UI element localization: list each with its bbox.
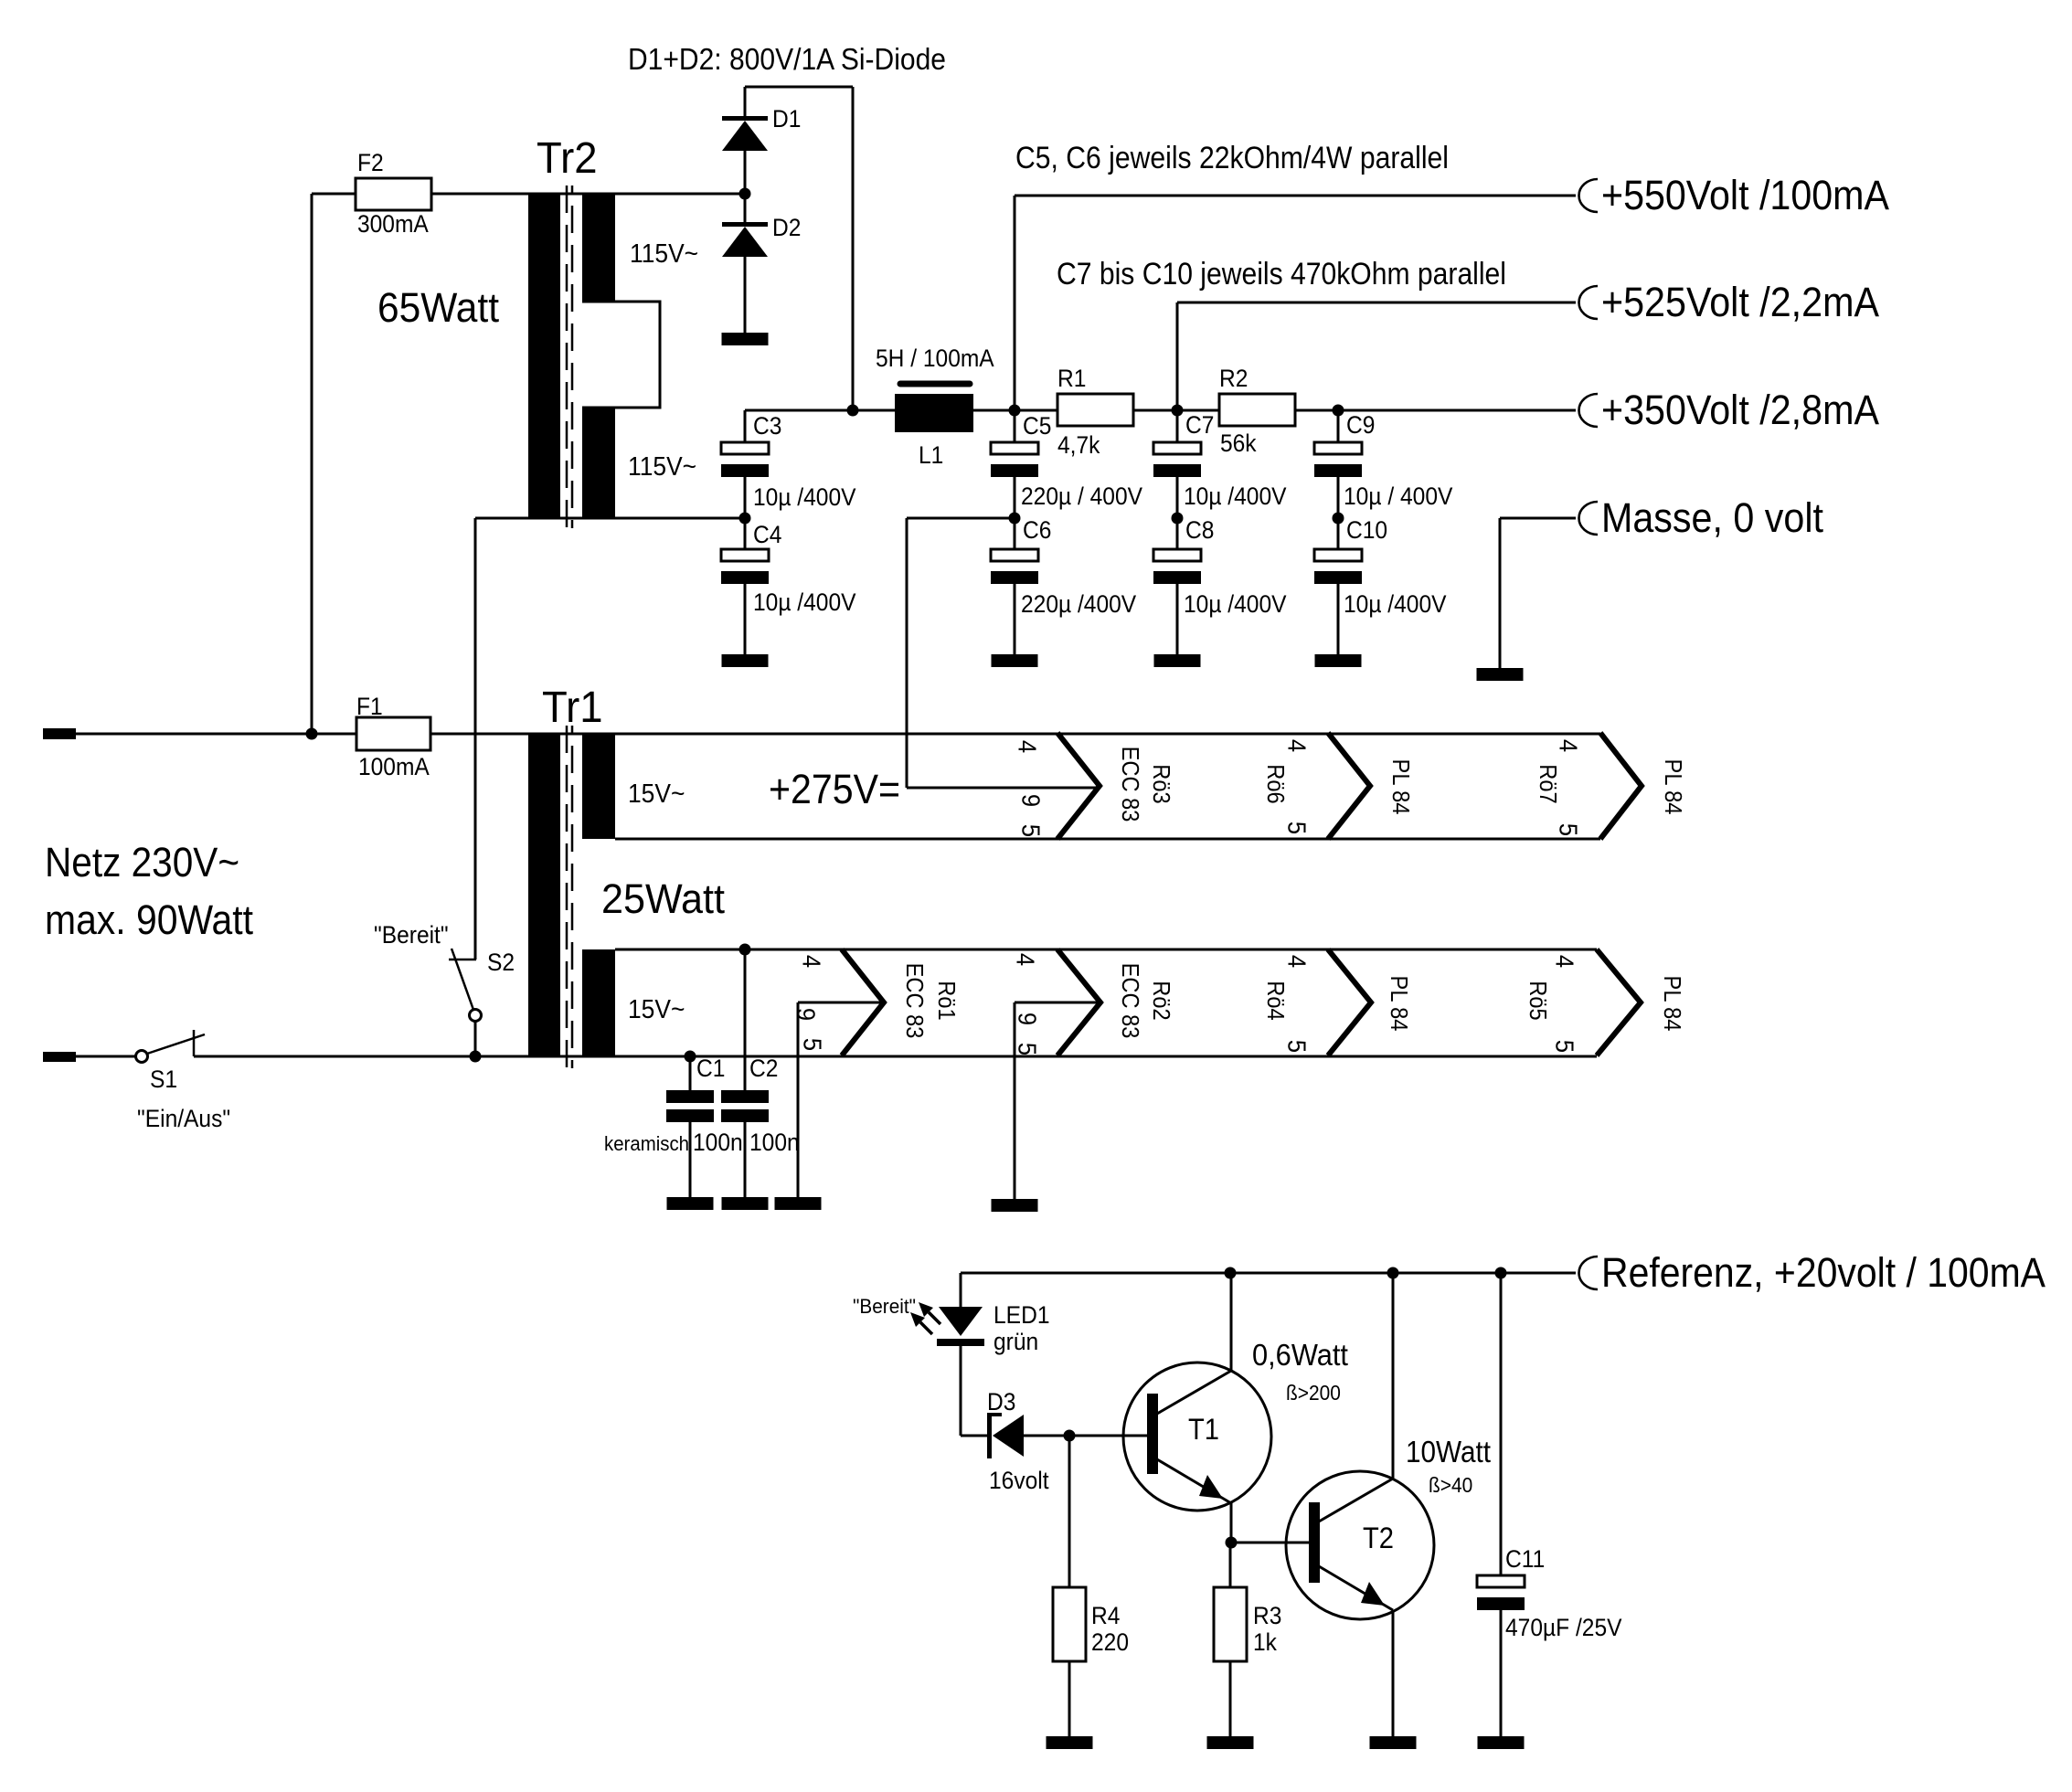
- svg-text:+525Volt /2,2mA: +525Volt /2,2mA: [1601, 279, 1879, 325]
- node: S2 to mains junction: [470, 1051, 482, 1063]
- ground: R3: [1207, 1736, 1254, 1749]
- fuse F2: [356, 178, 431, 210]
- node: T1 emitter / T2 base / R3: [1226, 1537, 1238, 1549]
- svg-text:5: 5: [1014, 1043, 1042, 1055]
- svg-text:C4: C4: [753, 521, 781, 548]
- svg-text:16volt: 16volt: [989, 1467, 1049, 1494]
- resistor R3: [1214, 1587, 1247, 1661]
- svg-text:ECC 83: ECC 83: [901, 963, 929, 1039]
- svg-text:ß>40: ß>40: [1429, 1473, 1472, 1497]
- diode D1: [744, 151, 747, 194]
- wire: heater chain 1 bottom rail: [615, 838, 1600, 841]
- wire: LED branch: [960, 1273, 962, 1307]
- svg-text:C1: C1: [696, 1055, 725, 1082]
- svg-text:4: 4: [1555, 739, 1583, 752]
- wire: top rail to filter: [745, 86, 853, 89]
- ground: C2: [722, 1197, 769, 1210]
- svg-text:220µ / 400V: 220µ / 400V: [1021, 482, 1142, 510]
- svg-text:T2: T2: [1363, 1522, 1394, 1554]
- svg-text:300mA: 300mA: [357, 210, 429, 238]
- node: C11 tap: [1495, 1267, 1507, 1279]
- svg-text:C5: C5: [1023, 412, 1051, 440]
- terminal: +350V: [1578, 394, 1598, 427]
- node: F2 branch junction: [306, 728, 318, 740]
- capacitor C3: [744, 410, 747, 442]
- svg-text:C7 bis C10 jeweils 470kOhm par: C7 bis C10 jeweils 470kOhm parallel: [1057, 257, 1506, 292]
- svg-text:C9: C9: [1346, 411, 1375, 439]
- node: D1/D2 junction: [739, 188, 751, 200]
- svg-text:100n: 100n: [693, 1129, 743, 1156]
- capacitor C8: [1176, 518, 1179, 549]
- svg-text:100mA: 100mA: [358, 753, 430, 780]
- svg-text:9: 9: [1017, 794, 1046, 807]
- wire: LED to D3: [961, 1435, 987, 1437]
- wire: +275V feed: [907, 517, 1015, 520]
- wire: mains top: [76, 733, 356, 736]
- wire: R4 lower lead: [1068, 1661, 1071, 1736]
- svg-text:keramisch: keramisch: [604, 1132, 689, 1155]
- terminal: +550V: [1578, 179, 1598, 212]
- wire: branch up to F2: [311, 194, 313, 734]
- node: D3/R4/base junction: [1064, 1430, 1076, 1442]
- svg-text:115V~: 115V~: [630, 239, 698, 269]
- resistor R1: [1057, 394, 1133, 426]
- svg-text:C8: C8: [1185, 516, 1214, 544]
- svg-text:Rö5: Rö5: [1525, 981, 1552, 1020]
- wire: R1 to R2: [1133, 409, 1219, 412]
- wire: L1 to R1: [973, 409, 1057, 412]
- svg-text:4: 4: [1012, 953, 1040, 966]
- ground: Roe1 pin 9: [775, 1197, 822, 1210]
- ground: D2: [722, 333, 769, 345]
- svg-text:D3: D3: [987, 1388, 1015, 1416]
- svg-text:4: 4: [1283, 739, 1312, 752]
- wire: R2 to +350V terminal: [1295, 409, 1576, 412]
- svg-text:Referenz, +20volt / 100mA: Referenz, +20volt / 100mA: [1601, 1249, 2045, 1296]
- wire: C3 corner to L1: [745, 409, 895, 412]
- node: rectifier output: [847, 405, 859, 417]
- svg-text:+350Volt /2,8mA: +350Volt /2,8mA: [1601, 387, 1879, 433]
- tube Roe2 chevron: [1057, 949, 1100, 1055]
- ground: C4: [722, 654, 769, 667]
- transformer Tr2 primary winding: [528, 194, 560, 518]
- wire: F1 to Tr1: [430, 733, 1600, 736]
- capacitor C4: [744, 518, 747, 549]
- switch S1: [136, 1051, 148, 1063]
- svg-text:5: 5: [799, 1038, 827, 1051]
- svg-text:25Watt: 25Watt: [601, 875, 725, 922]
- ground: C6: [992, 654, 1038, 667]
- wire: Tr2 secondary bottom to C4 node: [475, 517, 745, 520]
- svg-text:S1: S1: [150, 1066, 177, 1093]
- fuse F1: [356, 717, 430, 750]
- wire: R3 upper lead: [1229, 1543, 1232, 1587]
- transformer Tr1 secondary winding 15V lower: [582, 949, 615, 1056]
- wire: R4 upper lead: [1068, 1436, 1071, 1587]
- svg-text:5: 5: [1283, 1040, 1312, 1053]
- LED LED1: [939, 1307, 983, 1336]
- svg-text:T1: T1: [1188, 1413, 1219, 1446]
- svg-text:LED1: LED1: [993, 1301, 1050, 1329]
- svg-text:Rö2: Rö2: [1148, 981, 1175, 1020]
- svg-text:Netz 230V~: Netz 230V~: [45, 839, 239, 885]
- transistor T2: [1286, 1471, 1434, 1619]
- capacitor C5: [1014, 410, 1016, 442]
- svg-text:10µ /400V: 10µ /400V: [1184, 590, 1287, 618]
- svg-text:F2: F2: [357, 149, 384, 176]
- capacitor C6: [1014, 518, 1016, 549]
- transformer Tr1 core: [566, 726, 568, 1068]
- diode D2: [744, 194, 747, 224]
- svg-text:5: 5: [1283, 822, 1312, 834]
- wire: Roe2 pin9 to ground: [1015, 1002, 1100, 1004]
- node: C3/C4 junction: [739, 513, 751, 525]
- node: T2 collector to rail: [1387, 1267, 1399, 1279]
- svg-text:C3: C3: [753, 412, 781, 440]
- terminal: +525V: [1578, 286, 1598, 319]
- tube Roe3 chevron: [1057, 733, 1100, 839]
- wire: D3 to T1 base: [1024, 1435, 1147, 1437]
- node: C9 junction: [1333, 405, 1344, 417]
- svg-text:4: 4: [798, 955, 826, 968]
- svg-text:1k: 1k: [1253, 1628, 1277, 1656]
- svg-text:10µ /400V: 10µ /400V: [1184, 482, 1287, 510]
- inductor L1: [900, 381, 970, 387]
- terminal: Referenz: [1578, 1257, 1598, 1289]
- svg-text:220µ /400V: 220µ /400V: [1021, 590, 1136, 618]
- node: C1 tap: [685, 1051, 696, 1063]
- ground: Roe2 pin 9: [992, 1199, 1038, 1212]
- svg-text:Tr2: Tr2: [537, 134, 598, 183]
- node: C5 junction +550V: [1009, 405, 1021, 417]
- transformer Tr2 core: [566, 186, 568, 528]
- svg-text:9: 9: [792, 1008, 821, 1021]
- ground: Masse: [1477, 668, 1524, 681]
- svg-text:220: 220: [1091, 1628, 1129, 1656]
- capacitor C9: [1337, 410, 1340, 442]
- wire: R3 lower lead: [1229, 1661, 1232, 1736]
- svg-text:grün: grün: [993, 1328, 1038, 1355]
- svg-text:100n: 100n: [749, 1129, 800, 1156]
- svg-text:PL 84: PL 84: [1660, 759, 1687, 815]
- transistor T1: [1123, 1363, 1271, 1511]
- transformer Tr1 secondary winding 15V upper: [582, 733, 615, 839]
- svg-text:"Bereit": "Bereit": [853, 1295, 916, 1318]
- svg-text:ECC 83: ECC 83: [1117, 963, 1144, 1039]
- switch S2: [449, 959, 476, 961]
- wire: +550V output: [1014, 196, 1016, 410]
- node: C2 tap: [739, 944, 751, 956]
- terminal: Masse: [1578, 502, 1598, 535]
- node: C9/C10 junction: [1333, 513, 1344, 525]
- wire: S1 to Tr1 primary and heater chain 2 bottom rail: [194, 1055, 1597, 1058]
- svg-text:C10: C10: [1346, 516, 1387, 544]
- wire: down to S2: [474, 518, 477, 960]
- wire: Roe1 pin9 to ground: [798, 1002, 884, 1004]
- svg-text:R2: R2: [1219, 365, 1248, 392]
- ground: T2 emitter: [1370, 1736, 1417, 1749]
- svg-text:Tr1: Tr1: [542, 684, 603, 732]
- node: T1 collector to rail: [1225, 1267, 1237, 1279]
- svg-text:Rö3: Rö3: [1148, 764, 1175, 803]
- svg-text:PL 84: PL 84: [1659, 976, 1686, 1032]
- zener diode D3: [987, 1413, 992, 1458]
- wire: Tr2 secondary tap loop: [582, 302, 660, 408]
- svg-text:Rö6: Rö6: [1262, 764, 1290, 803]
- svg-text:max. 90Watt: max. 90Watt: [45, 896, 253, 943]
- resistor R4: [1053, 1587, 1086, 1661]
- svg-text:Masse, 0 volt: Masse, 0 volt: [1601, 494, 1823, 541]
- svg-text:5H / 100mA: 5H / 100mA: [876, 345, 994, 372]
- svg-text:4,7k: 4,7k: [1057, 431, 1100, 459]
- capacitor C1: [689, 1056, 692, 1090]
- svg-text:Rö4: Rö4: [1262, 981, 1290, 1020]
- tube Roe4 chevron: [1328, 949, 1371, 1055]
- svg-text:L1: L1: [919, 441, 943, 469]
- svg-text:"Bereit": "Bereit": [374, 921, 449, 949]
- resistor R2: [1219, 394, 1295, 426]
- ground: C10: [1315, 654, 1362, 667]
- svg-text:10µ / 400V: 10µ / 400V: [1344, 482, 1452, 510]
- ground: C1: [667, 1197, 714, 1210]
- svg-text:C7: C7: [1185, 411, 1214, 439]
- svg-text:Rö1: Rö1: [933, 981, 961, 1020]
- wire: +525V output: [1176, 302, 1179, 410]
- svg-text:S2: S2: [487, 949, 515, 976]
- svg-text:ß>200: ß>200: [1286, 1381, 1341, 1405]
- svg-text:C6: C6: [1023, 516, 1051, 544]
- transformer Tr1 primary winding: [528, 733, 560, 1056]
- svg-text:5: 5: [1555, 823, 1583, 836]
- svg-text:4: 4: [1551, 955, 1579, 968]
- node: C7/C8 junction: [1172, 513, 1184, 525]
- svg-text:PL 84: PL 84: [1386, 976, 1413, 1032]
- svg-text:ECC 83: ECC 83: [1117, 747, 1144, 822]
- wire: to F2: [312, 193, 356, 196]
- svg-text:9: 9: [1014, 1013, 1042, 1025]
- svg-text:10µ /400V: 10µ /400V: [753, 588, 856, 616]
- svg-text:15V~: 15V~: [628, 779, 685, 809]
- svg-text:R4: R4: [1091, 1602, 1120, 1629]
- svg-text:"Ein/Aus": "Ein/Aus": [137, 1105, 230, 1132]
- svg-text:R3: R3: [1253, 1602, 1281, 1629]
- capacitor C11: [1500, 1273, 1503, 1575]
- LED arrows: [929, 1312, 940, 1324]
- node: C5/C6 junction +275V tap: [1009, 513, 1021, 525]
- tube Roe5 chevron: [1597, 949, 1641, 1055]
- wire: heater chain 2 top rail: [615, 949, 1597, 951]
- svg-text:470µF /25V: 470µF /25V: [1505, 1614, 1622, 1641]
- terminal: mains input N: [43, 1052, 76, 1062]
- ground: C8: [1154, 654, 1201, 667]
- svg-text:C2: C2: [749, 1055, 778, 1082]
- svg-text:5: 5: [1551, 1040, 1579, 1053]
- svg-text:+550Volt /100mA: +550Volt /100mA: [1601, 172, 1889, 218]
- svg-text:Rö7: Rö7: [1535, 764, 1562, 803]
- svg-text:65Watt: 65Watt: [377, 284, 499, 331]
- wire: F2 to Tr2 and D1/D2 node: [431, 193, 745, 196]
- svg-text:C11: C11: [1505, 1545, 1545, 1573]
- transformer Tr2 secondary winding 115V lower: [582, 408, 615, 518]
- wire: Referenz rail: [961, 1272, 1576, 1275]
- svg-text:4: 4: [1283, 955, 1312, 968]
- svg-text:R1: R1: [1057, 365, 1086, 392]
- node: C7 junction +525V: [1172, 405, 1184, 417]
- svg-text:+275V=: +275V=: [769, 766, 900, 812]
- capacitor C2: [744, 949, 747, 1090]
- svg-text:D1+D2: 800V/1A Si-Diode: D1+D2: 800V/1A Si-Diode: [628, 42, 946, 76]
- svg-text:10µ /400V: 10µ /400V: [753, 483, 856, 511]
- svg-text:PL 84: PL 84: [1387, 759, 1415, 815]
- tube Roe6 chevron: [1328, 733, 1370, 839]
- svg-text:D1: D1: [772, 105, 801, 133]
- svg-text:10µ /400V: 10µ /400V: [1344, 590, 1447, 618]
- wire: to S1: [76, 1055, 136, 1058]
- svg-text:F1: F1: [356, 693, 383, 720]
- wire: Masse terminal: [1500, 517, 1576, 520]
- tube Roe7 chevron: [1600, 733, 1642, 839]
- terminal: mains input L: [43, 728, 76, 739]
- svg-text:5: 5: [1017, 824, 1046, 837]
- svg-text:10Watt: 10Watt: [1406, 1435, 1491, 1469]
- tube Roe1 chevron: [842, 949, 884, 1055]
- svg-text:0,6Watt: 0,6Watt: [1252, 1338, 1348, 1372]
- ground: C11: [1478, 1736, 1525, 1749]
- svg-text:15V~: 15V~: [628, 995, 685, 1024]
- svg-text:D2: D2: [772, 214, 801, 241]
- svg-text:4: 4: [1014, 740, 1042, 753]
- svg-text:C5, C6 jeweils 22kOhm/4W paral: C5, C6 jeweils 22kOhm/4W parallel: [1015, 141, 1449, 175]
- transformer Tr2 secondary winding 115V upper: [582, 194, 615, 302]
- svg-text:115V~: 115V~: [628, 452, 696, 482]
- capacitor C10: [1337, 518, 1340, 549]
- ground: R4: [1047, 1736, 1093, 1749]
- wire: Tr2 primary bottom: [475, 517, 528, 520]
- svg-text:56k: 56k: [1220, 429, 1257, 457]
- capacitor C7: [1176, 410, 1179, 442]
